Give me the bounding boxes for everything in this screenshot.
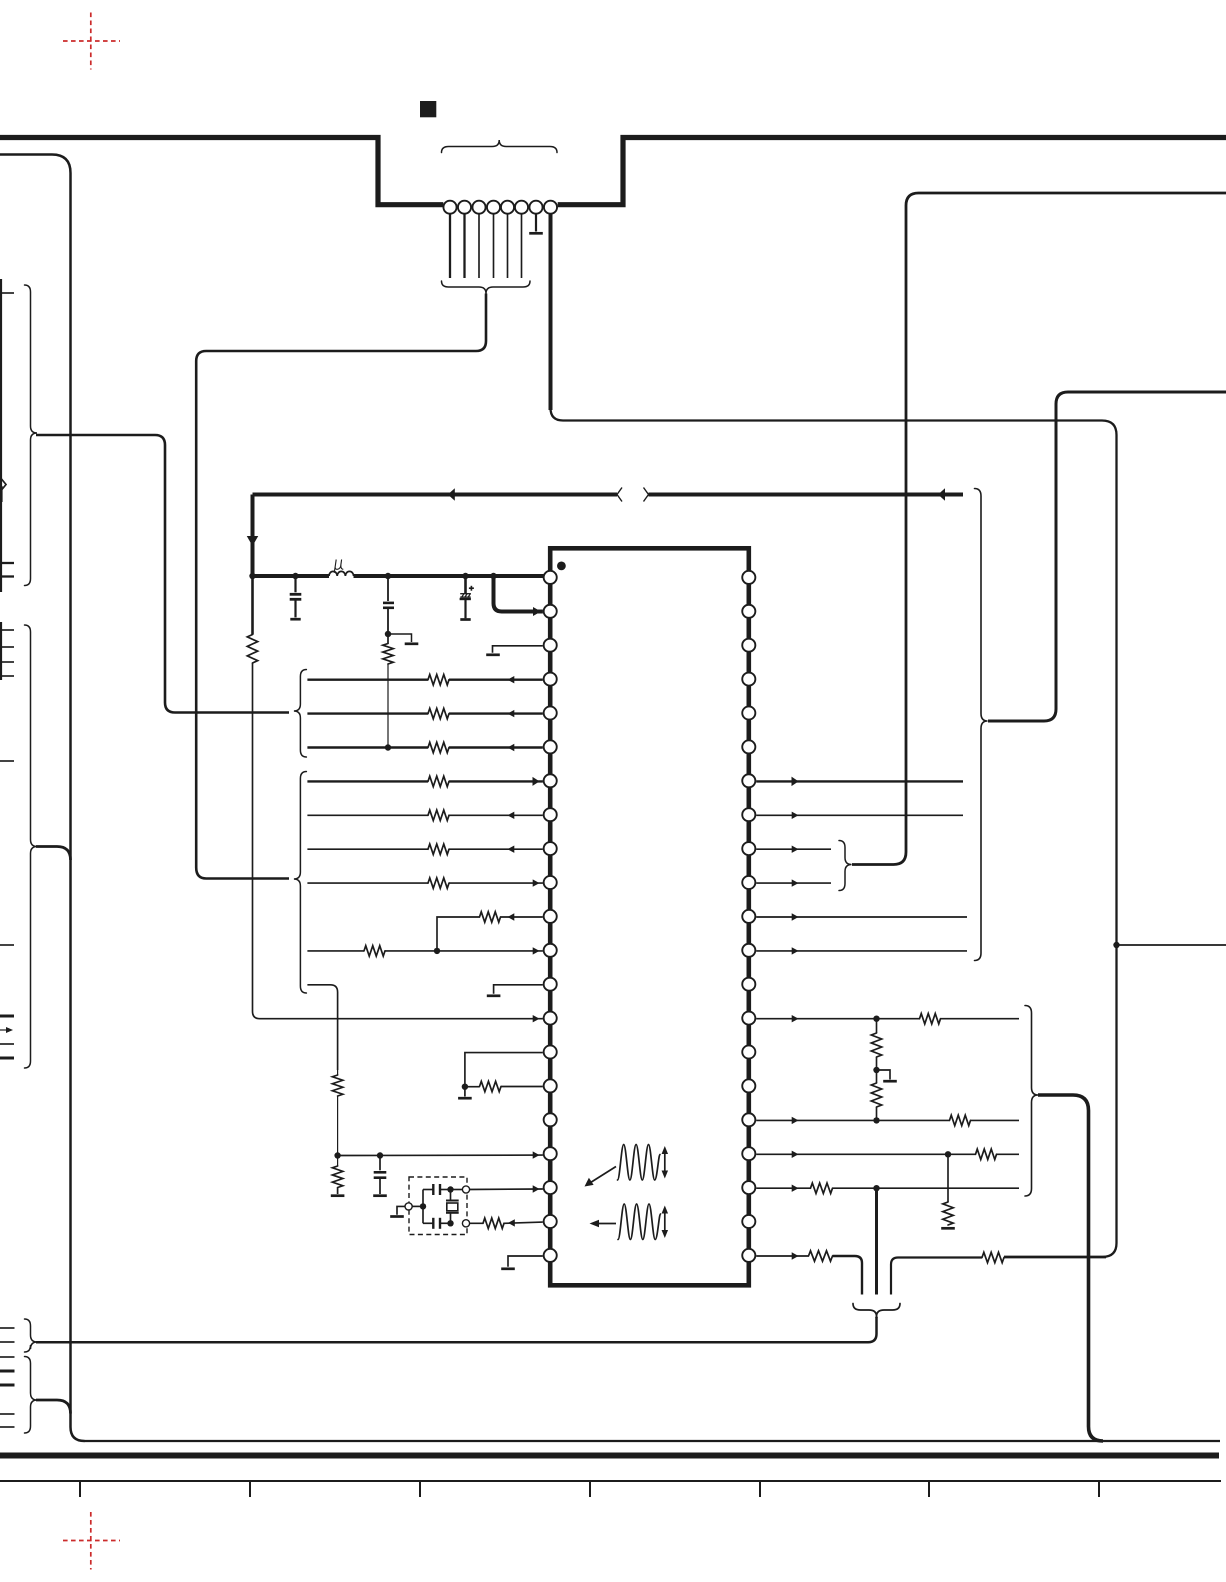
resistor R14 to pin 16 [465,1081,543,1091]
junction 19R [873,1185,879,1191]
cap common leg [422,1190,424,1224]
crystal X1 [446,1190,459,1224]
crystal circuit dashed box [409,1177,467,1235]
connector J1 pin stub 5 [507,214,509,278]
connector J3 pin tick [0,944,14,946]
IC U1 left pin circles [544,571,557,1262]
resistor R15 [483,1218,504,1228]
IC U1 pin-1 index dot [557,562,566,571]
resistor R18 chain [871,1057,881,1120]
connector J1 pin stub 1 [449,214,451,278]
wire from J1 brace to left bus [196,294,486,879]
capacitor C1 [290,576,302,619]
registration cross (top-left) [63,13,120,70]
ground at IC pin 3 [486,646,543,655]
ground pin 7 of J1 [529,214,543,233]
wire J1 pin8 to right riser [551,408,1117,1257]
ground at IC pin 13 [487,985,543,996]
bottom connector J4 pin tick [0,1413,15,1415]
wire bottom bus to capacitor bundle [36,1317,877,1342]
junction on rail at x=388 [385,573,391,579]
junction chain/row 18 [334,1152,340,1158]
resistor R1 below C2 node [383,634,393,748]
row to pin 5: resistor R4 [428,708,449,718]
connector J1 pin circles [443,201,557,214]
row to pin 7: resistor R6 [428,776,449,786]
wire break symbol (right) [644,488,649,502]
electrolytic capacitor C3 (+) [460,576,474,620]
resistor R12 in chain [332,1070,342,1156]
bottom frame tick x=760 [759,1481,761,1497]
bottom frame line [0,1480,1221,1482]
bottom connector J4 pin tick [0,1384,15,1387]
tall brace right group [975,489,988,961]
brace of connector J2 [25,285,38,586]
bottom frame tick x=929 [928,1481,930,1497]
row from pin 17R [756,1117,1019,1124]
junction R1/row6 [385,744,391,750]
bottom connector J4 pin tick [0,1356,15,1358]
connector J3 pin tick [0,675,14,677]
wire pin 15 to ground chain [465,1053,543,1087]
brace group rows 4-6 [294,670,307,758]
wire R15 to IC pin 20 with arrow [504,1219,543,1226]
test point circle (gnd) [405,1203,412,1210]
registration cross (bottom-left) [63,1512,120,1570]
bottom thick border [0,1453,1219,1459]
connector J3 pin tick [0,1057,14,1060]
row stub from brace to RC chain [307,985,337,1070]
ground at IC pin 21 [501,1256,543,1269]
supply rail to IC pin 1 [253,574,545,578]
junction 18R [945,1151,951,1157]
resistor R24 [982,1252,1004,1262]
brace mid right group [1025,1006,1038,1197]
wire R2 down to IC pin 14 [253,663,543,1022]
row to pin 12: resistor R11 [364,946,385,956]
waveform sine 1 amplitude arrow [662,1146,669,1179]
row from pin 12R [756,947,967,954]
chain ground tap [877,1070,897,1081]
junction 14R [873,1016,879,1022]
junction cap C4/row 18 [377,1152,383,1158]
row to pin 6: wire [307,744,542,751]
wire mid brace to bottom bus [1038,1095,1103,1441]
wire top right to small brace [852,193,1226,865]
bottom frame tick x=1099 [1098,1481,1100,1497]
bottom thin bus line [84,1440,1220,1442]
resistor R16 [920,1014,941,1024]
row to pin 9: wire [307,846,542,853]
connector J2 pin tick [0,575,14,577]
row to pin 9: resistor R8 [428,844,449,854]
resistor R2 below rail corner [247,576,257,663]
ground tap from C2 node [388,634,418,644]
resistor R13 to ground [331,1156,345,1196]
bottom frame tick x=590 [589,1481,591,1497]
bottom connector J4 pin tick [0,1370,15,1373]
connector J3 pin tick [0,629,14,631]
brace J4 group 1 [25,1319,38,1352]
row to pin 7: wire [307,777,543,786]
junction crystal top [447,1186,453,1192]
ground of crystal circuit [390,1206,405,1216]
row to pin 4: resistor R3 [428,675,449,685]
inductor L1 label [334,560,343,573]
wire to test point [409,1205,423,1207]
left connector J2 body edge [0,279,2,592]
connector J1 pin stub 2 [463,214,465,278]
connector J3 pin tick [0,661,14,663]
waveform sine 2 amplitude arrow [662,1206,669,1239]
wire from left edge down left rail [0,155,85,1442]
test point circle (bottom) [462,1220,469,1227]
row to pin 10: resistor R9 [428,878,449,888]
brace J4 group 2 [25,1357,38,1434]
brace group rows 7-13 [294,772,307,994]
ground of chain [458,1087,472,1099]
black square marker [420,101,436,117]
row to pin 11: wire [437,913,543,951]
left connector J3 body edge [0,622,2,680]
row from pin 8R [756,812,963,819]
bottom connector J4 pin tick [0,1327,15,1329]
waveform sine 1 [618,1145,660,1181]
wire crystal to IC pin 19 [451,1185,543,1192]
wire J1 pin 8 drop [549,214,553,410]
supply feed line with arrows (net VCC) [253,488,964,501]
junction on rail at x=493 [490,573,496,579]
bottom frame tick x=250 [249,1481,251,1497]
brace rows 9R-10R [839,841,852,891]
wire R24 to vertical riser [1004,1257,1106,1259]
connector J3 pin tick [0,646,14,648]
bottom connector J4 pin tick [0,1341,15,1343]
row from pin 7R [756,777,963,787]
row to pin 6: resistor R5 [428,742,449,752]
resistor R17 chain [871,1019,881,1057]
row from pin 10R [756,879,831,886]
junction on rail at x=295 [292,573,298,579]
row from pin 19R [756,1185,1019,1192]
connector J2 arrow glyph [0,476,6,502]
wire 19R down to bundle [875,1188,878,1294]
resistor R20 [976,1149,997,1159]
row from pin 21R [756,1252,808,1259]
inductor L1 [329,571,354,576]
IC U1 right pin circles [742,571,755,1262]
supply drop wire with arrow [247,495,259,577]
junction riser/right stub [1113,942,1119,948]
connector J2 pin tick [0,562,14,564]
connector J1 pin stub 3 [478,214,480,278]
junction under C2 [385,631,391,637]
waveform 2 pointer arrow [590,1220,617,1228]
resistor R19 [950,1115,971,1125]
row to pin 12: wire [307,947,543,954]
row to pin 4: wire [307,676,542,683]
row to pin 5: wire [307,710,542,717]
waveform 1 pointer arrow [585,1167,617,1187]
row from pin 18R [756,1151,1019,1158]
junction chain gnd [873,1067,879,1073]
resistor R21 to ground [941,1154,955,1228]
capacitor bundle brace [853,1304,900,1317]
resistor R23 [809,1251,833,1261]
wire brace J4 group2 joins left rail [36,1400,71,1414]
junction ground chain [462,1084,468,1090]
row from pin 9R [756,846,831,853]
connector J2 pin tick [0,292,14,294]
page top border (left span, with connector notch) [0,138,443,205]
wire rail to IC pin 2 [494,576,543,616]
row to pin 8: resistor R7 [428,810,449,820]
stub wire to right edge [1117,944,1226,946]
wire tall brace to top right [988,392,1226,721]
wire brace J2 to IC row group 1 [36,435,289,713]
wire 21R left segment into bundle [833,1256,863,1295]
bottom frame tick x=80 [79,1481,81,1497]
connector J3 pin tick with arrow [0,1027,13,1033]
row from pin 14R [756,1015,1019,1022]
wire 21R right segment from bundle [891,1258,982,1295]
capacitor C2 [383,576,394,634]
bundle brace stem [875,1317,877,1319]
junction on rail at x=252 [249,573,255,579]
capacitor C6 (bottom) [423,1218,451,1229]
connector J3 pin tick [0,1043,14,1045]
connector J3 pin tick [0,1015,14,1018]
brace under connector J1 pins 1-6 [442,281,531,294]
bottom frame tick x=420 [419,1481,421,1497]
row to pin 8: wire [307,812,542,819]
connector J1 pin stub 6 [521,214,523,278]
wire brace J3 joins left rail [36,847,71,861]
connector J3 pin tick [0,760,14,762]
row to pin 10: wire [307,879,543,886]
junction rows 11/12 [434,948,440,954]
page top border (right span, with connector notch) [558,138,1226,205]
test point circle (top) [462,1186,469,1193]
resistor R22 [811,1183,833,1193]
brace over connector J1 [442,140,558,153]
row to pin 18: wire [338,1151,543,1158]
capacitor C4 to ground [373,1156,387,1196]
IC U1 body [550,548,749,1285]
junction on rail at x=466 [462,573,468,579]
brace of connector J3 [25,625,38,1068]
connector J1 pin stub 4 [493,214,495,278]
wire break symbol (left) [617,488,622,502]
waveform sine 2 [618,1204,660,1240]
bottom connector J4 pin tick [0,1426,15,1428]
junction crystal bottom [447,1220,453,1226]
wire crystal to resistor R15 [466,1222,483,1224]
capacitor C5 (top) [423,1184,451,1195]
junction 17R [873,1117,879,1123]
junction cap common [420,1203,426,1209]
row to pin 11: resistor R10 [480,912,501,922]
row from pin 11R [756,913,967,920]
